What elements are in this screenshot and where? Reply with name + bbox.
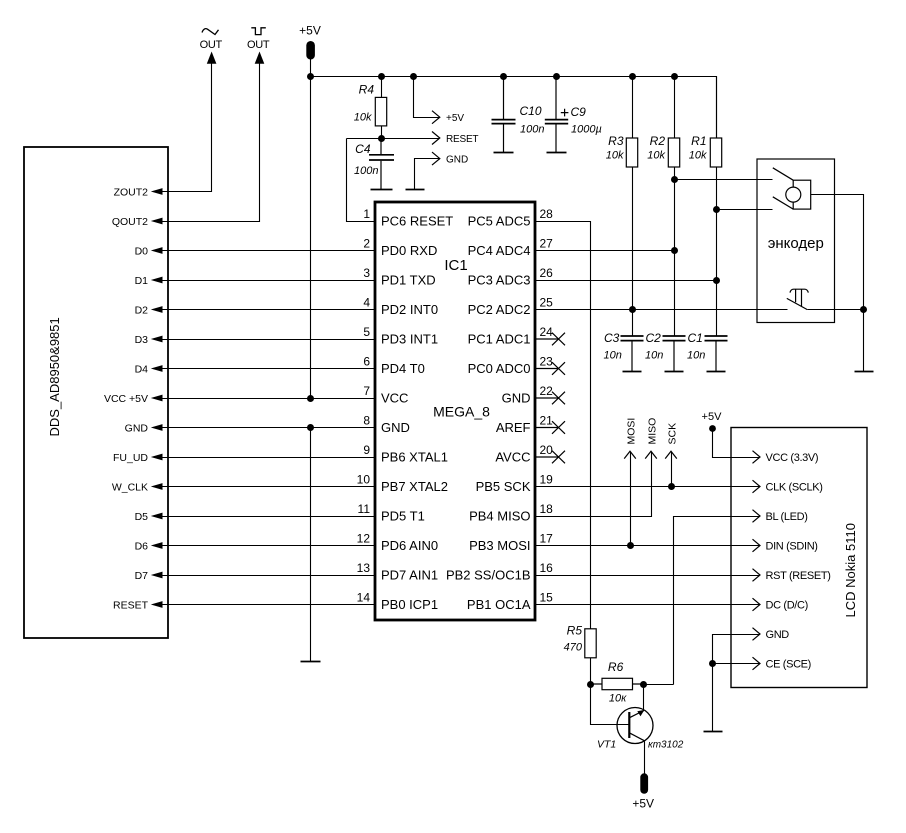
wire R6 junction to BL vertical xyxy=(644,684,674,686)
LCD pin arrow RST (RESET) xyxy=(753,569,831,582)
junction rail +5V arrow xyxy=(410,73,417,80)
svg-text:+5V: +5V xyxy=(299,24,321,38)
wire D0 to pin 2 xyxy=(163,250,376,252)
wire D5 row xyxy=(163,516,376,518)
svg-text:6: 6 xyxy=(363,354,370,368)
ground bar C10 xyxy=(494,152,514,154)
value 10n (C2) xyxy=(645,350,663,362)
junction +5V rail xyxy=(307,73,314,80)
wire R2 to C2 xyxy=(674,168,676,336)
+5V label LCD xyxy=(702,411,723,423)
svg-text:MOSI: MOSI xyxy=(625,418,637,445)
wire +5V vertical rail xyxy=(310,59,312,399)
wire GND drop from pin8 row xyxy=(310,428,312,662)
svg-text:DDS_AD8950&9851: DDS_AD8950&9851 xyxy=(47,317,62,436)
label энкодер xyxy=(768,235,824,252)
resistor R2 xyxy=(668,138,679,167)
LCD pin arrow GND xyxy=(753,628,790,641)
svg-text:PD0 RXD: PD0 RXD xyxy=(381,243,437,258)
DDS pin D3 arrow+label xyxy=(135,334,163,346)
svg-text:D3: D3 xyxy=(135,334,149,346)
LCD pin arrow DIN (SDIN) xyxy=(753,539,818,552)
wire RESET net to pin1 xyxy=(347,139,376,222)
label R4 xyxy=(359,83,375,97)
OUT label (sine) xyxy=(200,39,223,51)
wire FU_UD row xyxy=(163,457,376,459)
LCD Nokia 5110 block xyxy=(731,428,867,688)
svg-text:DC (D/C): DC (D/C) xyxy=(766,600,808,612)
wire D1 to pin 3 xyxy=(163,280,376,282)
IC1 pin 24 label PC1 ADC1 xyxy=(468,325,554,347)
svg-text:PC4 ADC4: PC4 ADC4 xyxy=(468,243,531,258)
wire VCC +5V row xyxy=(163,398,376,400)
svg-text:RESET: RESET xyxy=(446,134,478,145)
svg-text:GND: GND xyxy=(766,629,790,641)
arrow up MISO xyxy=(645,451,657,458)
resistor R3 xyxy=(626,138,637,167)
wire pin26 to R1 xyxy=(536,280,717,282)
LCD pin arrow BL (LED) xyxy=(753,510,808,523)
DDS pin QOUT2 arrow+label xyxy=(112,216,163,228)
wire LCD GND xyxy=(713,635,760,732)
svg-text:1: 1 xyxy=(363,207,370,221)
svg-text:24: 24 xyxy=(540,325,554,339)
signal label SCK xyxy=(666,423,678,445)
svg-text:PC0 ADC0: PC0 ADC0 xyxy=(468,361,531,376)
wire D4 to pin 6 xyxy=(163,368,376,370)
svg-text:10n: 10n xyxy=(687,350,705,362)
value 100n (C4) xyxy=(354,165,378,177)
value 10k (R2) xyxy=(647,150,665,162)
wire rail to R1 xyxy=(716,77,718,139)
svg-text:26: 26 xyxy=(540,266,554,280)
wire +5V arrow branch xyxy=(414,77,440,118)
svg-text:10: 10 xyxy=(357,472,371,486)
wire RESET arrow xyxy=(382,138,440,140)
svg-text:GND: GND xyxy=(125,422,149,434)
label +5V arrow xyxy=(446,113,464,124)
svg-text:PB3 MOSI: PB3 MOSI xyxy=(469,538,530,553)
IC1 pin 4 label PD2 INT0 xyxy=(363,295,438,317)
svg-text:C4: C4 xyxy=(355,142,371,156)
DDS pin D7 arrow+label xyxy=(135,570,163,582)
square output symbol xyxy=(251,28,265,35)
svg-text:20: 20 xyxy=(540,443,554,457)
svg-text:470: 470 xyxy=(564,642,583,654)
label GND arrow xyxy=(446,155,468,166)
wire encoder to ground xyxy=(863,310,865,372)
plus sign C9 xyxy=(561,109,569,117)
LCD pin arrow VCC (3.3V) xyxy=(753,451,819,464)
svg-text:OUT: OUT xyxy=(247,39,270,51)
svg-text:PC1 ADC1: PC1 ADC1 xyxy=(468,332,531,347)
resistor R1 xyxy=(710,138,721,167)
arrow up SCK xyxy=(665,451,677,458)
DDS pin FU_UD arrow+label xyxy=(113,452,163,464)
+5V supply terminal VT1 xyxy=(640,773,648,794)
svg-text:CE (SCE): CE (SCE) xyxy=(766,659,811,671)
wire SCK branch xyxy=(671,452,673,487)
+5V supply terminal top xyxy=(306,41,315,60)
svg-text:AREF: AREF xyxy=(496,420,531,435)
wire emitter to +5V xyxy=(644,742,646,774)
junction pin27/R2 xyxy=(671,247,678,254)
wire R2 junction to encoder A xyxy=(675,179,773,181)
value 1000µ (C9) xyxy=(571,123,602,135)
DDS pin D6 arrow+label xyxy=(135,540,163,552)
svg-text:DIN (SDIN): DIN (SDIN) xyxy=(766,541,818,553)
resistor R5 xyxy=(585,629,596,658)
svg-text:PB5 SCK: PB5 SCK xyxy=(476,479,531,494)
svg-text:VCC: VCC xyxy=(381,391,408,406)
wire R1 junction to encoder B xyxy=(717,209,773,211)
junction R4/C4/RESET xyxy=(378,135,385,142)
wire D3 to pin 5 xyxy=(163,339,376,341)
value 10k (R1) xyxy=(689,150,707,162)
junction SCK/CLK xyxy=(668,483,675,490)
svg-text:3: 3 xyxy=(363,266,370,280)
wire RESET net left segment xyxy=(347,138,382,140)
svg-text:7: 7 xyxy=(363,384,370,398)
svg-text:VCC +5V: VCC +5V xyxy=(104,393,148,405)
svg-text:D0: D0 xyxy=(135,245,149,257)
svg-text:9: 9 xyxy=(363,443,370,457)
IC1 pin 26 label PC3 ADC3 xyxy=(468,266,554,288)
svg-text:W_CLK: W_CLK xyxy=(112,481,148,493)
svg-text:PC2 ADC2: PC2 ADC2 xyxy=(468,302,531,317)
svg-text:C3: C3 xyxy=(604,331,620,345)
DDS pin D5 arrow+label xyxy=(135,511,163,523)
svg-text:R4: R4 xyxy=(359,83,375,97)
svg-text:10k: 10k xyxy=(689,150,707,162)
junction encoder common xyxy=(860,306,867,313)
svg-text:PB4 MISO: PB4 MISO xyxy=(469,509,530,524)
arrow chevron RESET xyxy=(432,132,440,145)
svg-text:10n: 10n xyxy=(645,350,663,362)
svg-text:+5V: +5V xyxy=(632,797,654,811)
wire rail to R2 xyxy=(674,77,676,139)
wire +5V to VCC LCD xyxy=(713,429,760,458)
wire D7 row xyxy=(163,575,376,577)
svg-text:PD3 INT1: PD3 INT1 xyxy=(381,332,438,347)
IC1 pin 27 label PC4 ADC4 xyxy=(468,236,554,258)
wire pin17 MOSI to DIN xyxy=(536,545,760,547)
svg-text:R1: R1 xyxy=(691,134,706,148)
wire button to common xyxy=(808,309,864,311)
svg-text:100n: 100n xyxy=(520,123,544,135)
svg-text:FU_UD: FU_UD xyxy=(113,452,148,464)
wire pin28 to R5 xyxy=(536,222,591,629)
IC1 pin 8 label GND xyxy=(363,413,410,435)
IC1 pin 1 label PC6 RESET xyxy=(363,207,453,229)
DDS pin D0 arrow+label xyxy=(135,245,163,257)
svg-text:PC6 RESET: PC6 RESET xyxy=(381,214,453,229)
value 10k (R3) xyxy=(606,150,624,162)
svg-text:10k: 10k xyxy=(647,150,665,162)
IC1 pin 25 label PC2 ADC2 xyxy=(468,295,554,317)
wire pin15 to DC xyxy=(536,604,760,606)
svg-text:LCD Nokia 5110: LCD Nokia 5110 xyxy=(843,523,858,617)
svg-text:R2: R2 xyxy=(650,134,666,148)
svg-text:4: 4 xyxy=(363,295,370,309)
IC1 pin 13 label PD7 AIN1 xyxy=(357,561,438,583)
svg-text:кm3102: кm3102 xyxy=(648,740,684,751)
svg-text:PB0 ICP1: PB0 ICP1 xyxy=(381,597,438,612)
svg-text:23: 23 xyxy=(540,354,554,368)
IC1 pin 21 label AREF xyxy=(496,413,553,435)
transistor VT1 xyxy=(617,708,653,744)
LCD pin arrow CE (SCE) xyxy=(753,657,811,670)
no-connect X pin 20 xyxy=(535,451,565,464)
label MEGA_8 xyxy=(433,404,490,420)
DDS pin D1 arrow+label xyxy=(135,275,163,287)
svg-text:10n: 10n xyxy=(604,350,622,362)
svg-text:PD5 T1: PD5 T1 xyxy=(381,509,425,524)
arrow up MOSI xyxy=(624,451,636,458)
wire pin25 to R3 and button xyxy=(536,309,788,311)
svg-text:14: 14 xyxy=(357,590,371,604)
IC1 pin 7 label VCC xyxy=(363,384,408,406)
junction rail R3 xyxy=(629,73,636,80)
svg-text:28: 28 xyxy=(540,207,554,221)
IC1 pin 28 label PC5 ADC5 xyxy=(468,207,554,229)
wire encoder common xyxy=(811,195,864,310)
ground bar GND arrow xyxy=(406,189,425,191)
ground bar GND drop xyxy=(301,661,321,663)
wire W_CLK row xyxy=(163,486,376,488)
wire GND row xyxy=(163,427,376,429)
svg-text:17: 17 xyxy=(540,531,554,545)
label R1 xyxy=(691,134,706,148)
arrow chevron GND xyxy=(432,152,440,165)
junction R5/R6/base xyxy=(587,681,594,688)
junction R1/encoder B xyxy=(713,206,720,213)
IC1 pin 18 label PB4 MISO xyxy=(469,502,553,524)
svg-text:D6: D6 xyxy=(135,540,149,552)
svg-text:IC1: IC1 xyxy=(444,257,467,274)
DDS block DD1 xyxy=(24,147,168,638)
svg-text:PC3 ADC3: PC3 ADC3 xyxy=(468,273,531,288)
ground bar C2 xyxy=(665,371,684,373)
svg-text:GND: GND xyxy=(502,391,531,406)
svg-text:16: 16 xyxy=(540,561,554,575)
DDS pin VCC +5V arrow+label xyxy=(104,393,163,405)
svg-text:PD7 AIN1: PD7 AIN1 xyxy=(381,568,438,583)
label R2 xyxy=(650,134,666,148)
svg-text:22: 22 xyxy=(540,384,554,398)
svg-text:MISO: MISO xyxy=(646,418,658,445)
svg-text:11: 11 xyxy=(358,502,371,516)
IC1 pin 23 label PC0 ADC0 xyxy=(468,354,554,376)
IC1 pin 5 label PD3 INT1 xyxy=(363,325,438,347)
signal label MISO xyxy=(646,418,658,445)
+5V terminal LCD xyxy=(709,425,716,432)
junction pin26/R1 xyxy=(713,277,720,284)
svg-text:D1: D1 xyxy=(135,275,149,287)
svg-text:RESET: RESET xyxy=(113,599,149,611)
capacitor C2 xyxy=(663,336,686,372)
value 100n (C10) xyxy=(520,123,544,135)
label R5 xyxy=(567,624,583,638)
wire pin16 to RST xyxy=(536,575,760,577)
svg-text:13: 13 xyxy=(357,561,371,575)
label C2 xyxy=(646,331,662,345)
encoder push button xyxy=(787,289,809,309)
svg-text:PD1 TXD: PD1 TXD xyxy=(381,273,436,288)
label C9 xyxy=(571,105,587,119)
label IC1 xyxy=(444,257,467,274)
ground bar C9 xyxy=(547,152,567,154)
junction rail R2 xyxy=(671,73,678,80)
svg-text:D2: D2 xyxy=(135,304,149,316)
no-connect X pin 24 xyxy=(535,333,565,346)
wire base xyxy=(591,685,629,725)
svg-text:PD4 T0: PD4 T0 xyxy=(381,361,425,376)
IC1 pin 12 label PD6 AIN0 xyxy=(357,531,438,553)
svg-text:PD2 INT0: PD2 INT0 xyxy=(381,302,438,317)
svg-text:PB2 SS/OC1B: PB2 SS/OC1B xyxy=(446,568,531,583)
IC1 pin 16 label PB2 SS/OC1B xyxy=(446,561,553,583)
wire D6 row xyxy=(163,545,376,547)
encoder rotary contacts xyxy=(773,168,811,209)
DDS pin GND arrow+label xyxy=(125,422,163,434)
junction GND pin8 xyxy=(307,424,314,431)
svg-text:19: 19 xyxy=(540,472,554,486)
svg-text:1000µ: 1000µ xyxy=(571,123,602,135)
value 10к (R6) xyxy=(609,693,627,705)
svg-text:PB7 XTAL2: PB7 XTAL2 xyxy=(381,479,448,494)
DDS pin D4 arrow+label xyxy=(135,363,163,375)
junction R2/encoder A xyxy=(671,176,678,183)
junction rail R4 xyxy=(378,73,385,80)
svg-text:ZOUT2: ZOUT2 xyxy=(114,186,149,198)
IC1 pin 19 label PB5 SCK xyxy=(476,472,554,494)
label C4 xyxy=(355,142,371,156)
svg-text:27: 27 xyxy=(540,236,554,250)
wire MISO branch xyxy=(536,452,652,517)
ground bar C3 xyxy=(623,371,642,373)
svg-text:D7: D7 xyxy=(135,570,149,582)
svg-text:C9: C9 xyxy=(571,105,587,119)
wire top +5V rail horizontal xyxy=(311,77,717,139)
label VT1 xyxy=(597,739,616,751)
svg-text:10k: 10k xyxy=(606,150,624,162)
resistor R4 xyxy=(375,97,386,126)
svg-text:5: 5 xyxy=(363,325,370,339)
wire D2 to pin 4 xyxy=(163,309,376,311)
svg-text:2: 2 xyxy=(363,236,370,250)
OUT label (square) xyxy=(247,39,270,51)
arrow chevron +5V xyxy=(432,111,440,124)
IC1 pin 17 label PB3 MOSI xyxy=(469,531,553,553)
no-connect X pin 21 xyxy=(535,421,565,434)
svg-text:D5: D5 xyxy=(135,511,149,523)
svg-text:D4: D4 xyxy=(135,363,149,375)
wire R4 bottom xyxy=(381,126,383,139)
svg-text:10k: 10k xyxy=(354,112,372,124)
resistor R6 xyxy=(591,678,644,689)
svg-text:PD6 AIN0: PD6 AIN0 xyxy=(381,538,438,553)
IC1 pin 6 label PD4 T0 xyxy=(363,354,425,376)
ground bar LCD xyxy=(704,731,723,733)
svg-text:21: 21 xyxy=(540,413,554,427)
junction rail C10 xyxy=(500,73,507,80)
svg-text:15: 15 xyxy=(540,590,554,604)
svg-text:GND: GND xyxy=(446,155,468,166)
junction R6/collector/BL xyxy=(640,681,647,688)
svg-text:QOUT2: QOUT2 xyxy=(112,216,148,228)
capacitor C1 xyxy=(705,336,728,372)
wire pin19 SCK to CLK xyxy=(536,486,760,488)
svg-text:R5: R5 xyxy=(567,624,583,638)
svg-text:PB6 XTAL1: PB6 XTAL1 xyxy=(381,450,448,465)
value 10n (C1) xyxy=(687,350,705,362)
DDS pin D2 arrow+label xyxy=(135,304,163,316)
svg-text:PC5 ADC5: PC5 ADC5 xyxy=(468,214,531,229)
DDS pin RESET arrow+label xyxy=(113,599,163,611)
encoder block xyxy=(757,159,835,323)
label кт3102 xyxy=(648,740,684,751)
svg-text:OUT: OUT xyxy=(200,39,223,51)
svg-text:AVCC: AVCC xyxy=(495,450,530,465)
svg-text:+5V: +5V xyxy=(446,113,464,124)
sine output symbol xyxy=(202,29,219,35)
junction rail C9 xyxy=(553,73,560,80)
label C3 xyxy=(604,331,620,345)
wire pin27 to R2 xyxy=(536,250,675,252)
junction GND/CE LCD xyxy=(709,660,716,667)
IC1 pin 2 label PD0 RXD xyxy=(363,236,437,258)
wire collector drop xyxy=(643,685,645,711)
wire node QOUT2 to OUT square xyxy=(163,64,260,222)
capacitor C3 xyxy=(621,336,644,372)
svg-text:CLK (SCLK): CLK (SCLK) xyxy=(766,482,823,494)
IC1 pin 3 label PD1 TXD xyxy=(363,266,435,288)
label C1 xyxy=(688,331,703,345)
wire rail to R3 xyxy=(632,77,634,139)
svg-text:BL (LED): BL (LED) xyxy=(766,511,808,523)
svg-text:12: 12 xyxy=(357,531,371,545)
no-connect X pin 22 xyxy=(535,392,565,405)
capacitor C10 xyxy=(492,77,516,153)
label C10 xyxy=(520,104,542,118)
wire rail to R4 xyxy=(381,77,383,98)
value 10k (R4) xyxy=(354,112,372,124)
svg-text:MEGA_8: MEGA_8 xyxy=(433,404,490,420)
value 470 (R5) xyxy=(564,642,583,654)
ground bar C1 xyxy=(707,371,726,373)
svg-text:10к: 10к xyxy=(609,693,627,705)
ground bar encoder xyxy=(855,371,874,373)
label R6 xyxy=(608,660,624,674)
wire node ZOUT2 to OUT sine xyxy=(163,64,212,192)
value 10n (C3) xyxy=(604,350,622,362)
DDS pin W_CLK arrow+label xyxy=(112,481,163,493)
IC1 pin 11 label PD5 T1 xyxy=(358,502,425,524)
label RESET arrow xyxy=(446,134,478,145)
arrow up OUT square xyxy=(255,52,265,64)
arrow up OUT sine xyxy=(207,52,217,64)
wire LCD CE xyxy=(713,663,760,665)
microcontroller IC1 MEGA_8 xyxy=(375,202,535,620)
capacitor C9 (electrolytic) xyxy=(545,77,568,153)
ground bar C4 xyxy=(371,189,393,191)
wire GND arrow branch xyxy=(415,159,440,190)
svg-text:PB1 OC1A: PB1 OC1A xyxy=(467,597,531,612)
svg-text:GND: GND xyxy=(381,420,410,435)
IC1 pin 15 label PB1 OC1A xyxy=(467,590,553,612)
svg-text:C1: C1 xyxy=(688,331,703,345)
